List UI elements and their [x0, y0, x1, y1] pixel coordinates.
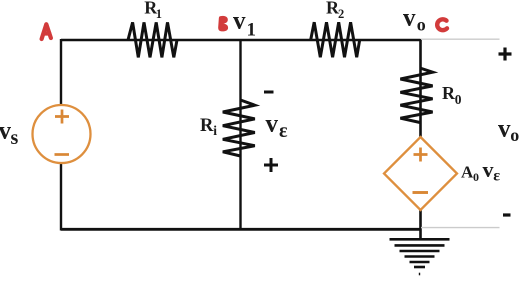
plus terminal right top — [499, 48, 512, 61]
plus below v epsilon — [264, 158, 278, 172]
svg-text:v: v — [233, 7, 246, 34]
wire: bottom net — [61, 228, 421, 231]
resistor R0 (vertical) — [400, 68, 432, 123]
resistor Ri (vertical) — [223, 100, 255, 156]
dependent source A0ve (diamond) — [384, 137, 457, 210]
svg-text:0: 0 — [473, 170, 479, 184]
svg-text:v: v — [403, 5, 416, 32]
svg-text:v: v — [498, 116, 511, 143]
svg-text:1: 1 — [156, 7, 162, 21]
minus terminal right bottom — [503, 213, 511, 216]
svg-text:i: i — [213, 123, 217, 138]
resistor R1 — [128, 22, 177, 57]
minus sign inside diamond — [413, 191, 429, 194]
voltage source vs (circle) — [33, 105, 91, 163]
svg-text:ε: ε — [493, 168, 500, 185]
svg-text:v: v — [483, 157, 494, 182]
svg-text:0: 0 — [455, 92, 462, 107]
minus sign inside source — [55, 153, 70, 156]
minus above v epsilon — [264, 91, 274, 94]
svg-text:1: 1 — [247, 20, 257, 41]
svg-text:2: 2 — [338, 7, 344, 21]
node B red mark — [218, 16, 228, 31]
svg-text:s: s — [11, 127, 19, 149]
gray extension line top right (node vo to + terminal) — [421, 38, 500, 40]
svg-text:R: R — [200, 116, 214, 136]
node C red mark — [437, 19, 447, 30]
wire: middle vertical from node B through Ri to bottom net — [239, 40, 241, 230]
svg-text:o: o — [510, 125, 519, 145]
plus sign inside source — [55, 110, 69, 124]
node A red mark — [42, 24, 51, 39]
svg-text:ε: ε — [279, 120, 288, 142]
svg-text:o: o — [417, 15, 426, 35]
ground — [390, 239, 450, 274]
wire: dependent source bottom to ground — [419, 210, 422, 241]
svg-text:v: v — [266, 111, 279, 138]
wire: left vertical from node A down to source top — [60, 39, 62, 106]
gray extension line bottom right (ground node to - terminal) — [421, 227, 500, 229]
wire: right vertical from node C through R0 to dependent source top — [419, 39, 422, 138]
wire: left vertical from source bottom to bottom net — [60, 163, 62, 231]
wire: top net from node A to node C (runs through R1 and R2) — [61, 39, 421, 41]
resistor R2 — [311, 22, 360, 57]
plus sign inside diamond — [414, 148, 428, 162]
